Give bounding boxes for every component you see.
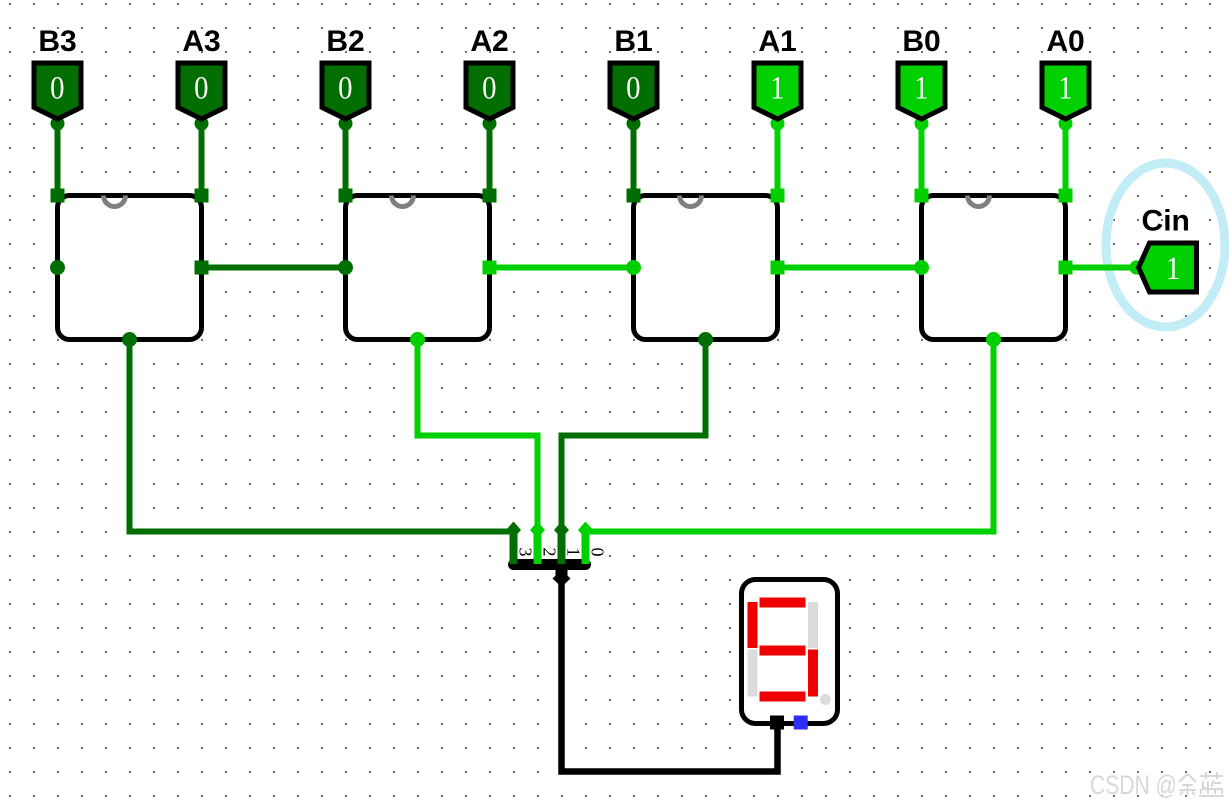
svg-text:1: 1	[770, 68, 784, 105]
U1 sum output pin	[122, 332, 137, 347]
wire 4-bit bus splitter to display	[562, 578, 778, 772]
wire B2 to adder	[343, 121, 349, 196]
U2 carry-out pin	[338, 260, 353, 275]
U3 input pad B1	[627, 189, 641, 203]
wire A2 to adder	[487, 121, 493, 196]
U3 carry-out pin	[626, 260, 641, 275]
decimal point (off)	[820, 694, 831, 705]
segment D bottom	[760, 692, 806, 702]
wire S2 (U2 sum to splitter bit 2)	[418, 336, 538, 532]
svg-text:0: 0	[626, 68, 640, 105]
wire carry U2 out to U1 in	[202, 265, 346, 271]
wire A0 to adder	[1063, 121, 1069, 196]
splitter bit label 2	[540, 548, 560, 557]
input pin A2	[466, 25, 513, 131]
input pin B1	[610, 25, 657, 131]
input pin A0	[1042, 25, 1089, 131]
splitter bit label 0	[588, 548, 608, 557]
U2 input pad B2	[339, 189, 353, 203]
svg-text:A3: A3	[182, 25, 220, 58]
svg-text:0: 0	[50, 68, 64, 105]
wire S3 (U1 sum to splitter bit 3)	[130, 336, 516, 532]
input pin Cin	[1130, 205, 1197, 293]
wire carry U3 out to U2 in	[490, 265, 634, 271]
svg-text:B1: B1	[614, 25, 652, 58]
svg-text:1: 1	[564, 548, 584, 557]
U1 input pad A3	[195, 189, 209, 203]
segment F top-left	[748, 602, 758, 648]
U3 carry-in pad	[771, 261, 785, 275]
segment E bottom-left (off)	[748, 650, 758, 697]
splitter bit label 3	[516, 548, 536, 557]
splitter leg bit 1	[554, 522, 569, 565]
splitter trunk	[553, 565, 571, 587]
svg-text:0: 0	[588, 548, 608, 557]
svg-text:1: 1	[914, 68, 928, 105]
svg-text:2: 2	[540, 548, 560, 557]
svg-text:Cin: Cin	[1142, 205, 1190, 238]
watermark CSDN @yulan	[1090, 771, 1224, 801]
svg-text:1: 1	[1166, 249, 1180, 286]
input pin B2	[322, 25, 369, 131]
svg-text:1: 1	[1058, 68, 1072, 105]
full adder U2	[346, 196, 490, 340]
U1 input pad B3	[51, 189, 65, 203]
svg-text:B0: B0	[902, 25, 940, 58]
svg-text:0: 0	[482, 68, 496, 105]
highlight ellipse around Cin	[1106, 163, 1225, 327]
splitter leg bit 2	[530, 522, 545, 565]
wire B1 to adder	[631, 121, 637, 196]
svg-text:0: 0	[194, 68, 208, 105]
segment G middle	[760, 646, 806, 656]
svg-text:CSDN @: CSDN @	[1090, 771, 1177, 801]
U4 carry-out pin	[914, 260, 929, 275]
wire Cin to U4 carry in	[1066, 261, 1144, 275]
svg-text:0: 0	[338, 68, 352, 105]
U1 carry-in pad	[195, 261, 209, 275]
U4 sum output pin	[986, 332, 1001, 347]
U1 carry-out pin	[50, 260, 65, 275]
wire carry U4 out to U3 in	[778, 265, 922, 271]
svg-text:A0: A0	[1046, 25, 1084, 58]
segment A top	[760, 598, 806, 608]
wire A1 to adder	[775, 121, 781, 196]
input pin B3	[34, 25, 81, 131]
svg-text:B2: B2	[326, 25, 364, 58]
input pin A1	[754, 25, 801, 131]
splitter leg bit 0	[578, 522, 593, 565]
full adder U4	[922, 196, 1066, 340]
full adder U3	[634, 196, 778, 340]
wire S0 (U4 sum to splitter bit 0)	[584, 336, 994, 532]
svg-text:3: 3	[516, 548, 536, 557]
U3 input pad A1	[771, 189, 785, 203]
splitter fan-in bar	[514, 559, 586, 570]
wire S1 (U3 sum to splitter bit 1)	[562, 336, 706, 532]
svg-text:A1: A1	[758, 25, 796, 58]
7-segment display body	[742, 580, 838, 724]
U2 carry-in pad	[483, 261, 497, 275]
input pin B0	[898, 25, 945, 131]
U3 sum output pin	[698, 332, 713, 347]
svg-text:A2: A2	[470, 25, 508, 58]
U4 input pad A0	[1059, 189, 1073, 203]
segment B top-right (off)	[808, 602, 818, 648]
svg-text:B3: B3	[38, 25, 76, 58]
wire B3 to adder	[55, 121, 61, 196]
full adder U1	[58, 196, 202, 340]
wire A3 to adder	[199, 121, 205, 196]
splitter leg bit 3	[506, 522, 521, 565]
U4 input pad B0	[915, 189, 929, 203]
input pin A3	[178, 25, 225, 131]
U2 input pad A2	[483, 189, 497, 203]
splitter bit label 1	[564, 548, 584, 557]
wire B0 to adder	[919, 121, 925, 196]
display input pin (floating)	[794, 716, 808, 730]
U2 sum output pin	[410, 332, 425, 347]
U4 carry-in pad	[1059, 261, 1073, 275]
display input pin (connected)	[770, 716, 784, 730]
segment C bottom-right	[808, 650, 818, 697]
